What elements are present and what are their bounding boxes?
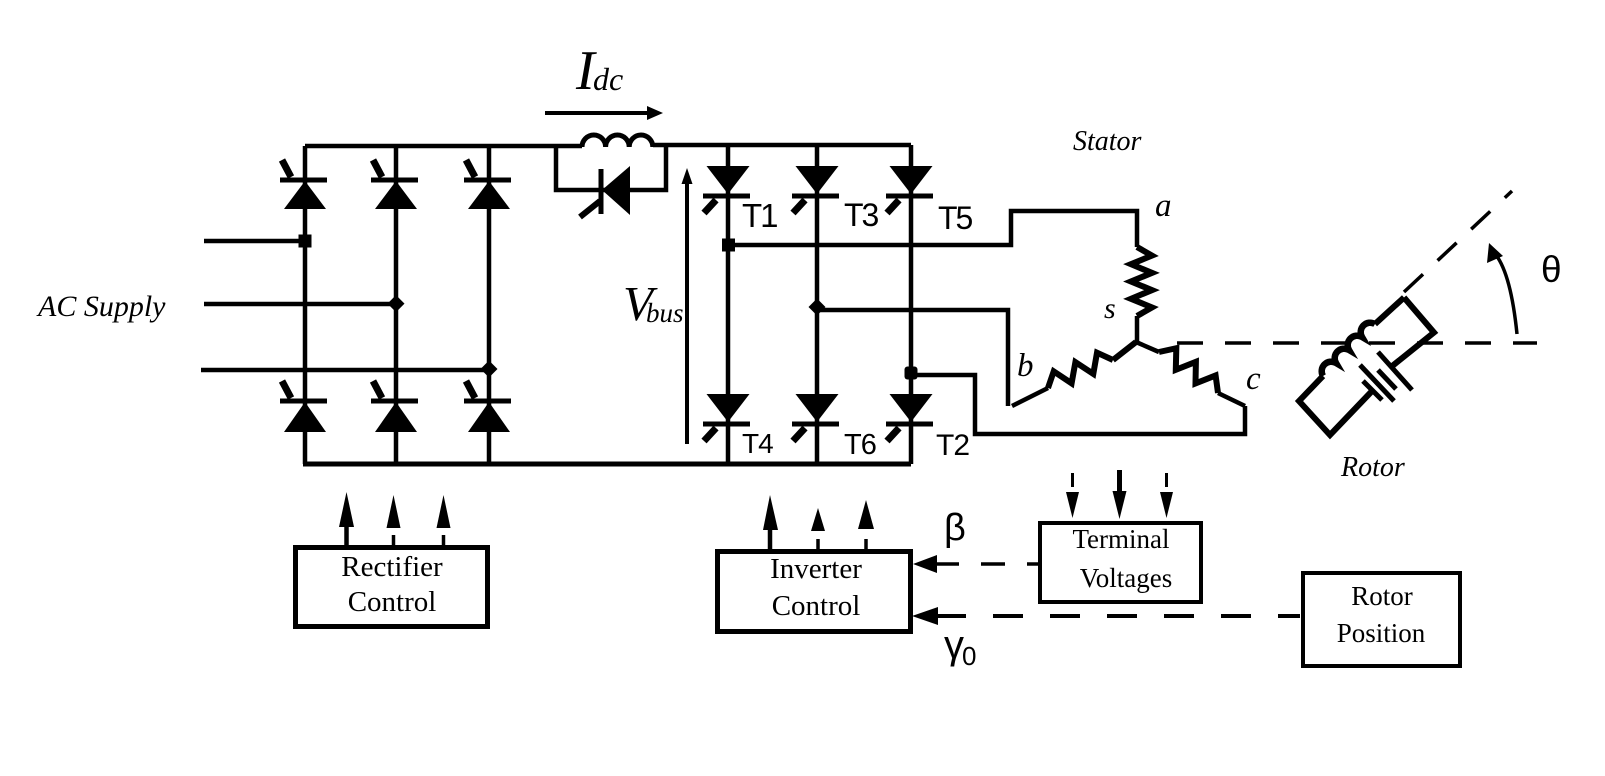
svg-text:c: c bbox=[1246, 361, 1261, 397]
svg-text:β: β bbox=[944, 507, 966, 549]
svg-text:T5: T5 bbox=[938, 200, 973, 236]
svg-text:dc: dc bbox=[593, 61, 623, 97]
svg-text:Position: Position bbox=[1337, 618, 1426, 648]
svg-text:T2: T2 bbox=[936, 429, 969, 462]
svg-text:Control: Control bbox=[348, 586, 437, 618]
svg-text:T1: T1 bbox=[742, 197, 777, 234]
svg-text:T6: T6 bbox=[844, 429, 876, 461]
svg-text:0: 0 bbox=[962, 641, 976, 671]
svg-text:bus: bus bbox=[646, 298, 684, 328]
svg-text:Terminal: Terminal bbox=[1072, 524, 1169, 554]
svg-text:Inverter: Inverter bbox=[770, 553, 862, 585]
svg-text:θ: θ bbox=[1541, 249, 1562, 290]
svg-text:Rectifier: Rectifier bbox=[341, 551, 443, 583]
svg-text:b: b bbox=[1017, 348, 1034, 384]
svg-text:T3: T3 bbox=[844, 197, 879, 233]
svg-text:T4: T4 bbox=[742, 428, 773, 459]
svg-text:s: s bbox=[1104, 292, 1116, 325]
svg-text:Rotor: Rotor bbox=[1340, 452, 1405, 483]
svg-text:AC Supply: AC Supply bbox=[36, 290, 166, 323]
svg-text:Control: Control bbox=[772, 590, 861, 622]
svg-text:Rotor: Rotor bbox=[1351, 581, 1413, 611]
svg-text:a: a bbox=[1155, 188, 1172, 224]
svg-text:γ: γ bbox=[944, 623, 964, 667]
svg-text:Voltages: Voltages bbox=[1080, 563, 1173, 593]
svg-text:Stator: Stator bbox=[1073, 126, 1142, 157]
